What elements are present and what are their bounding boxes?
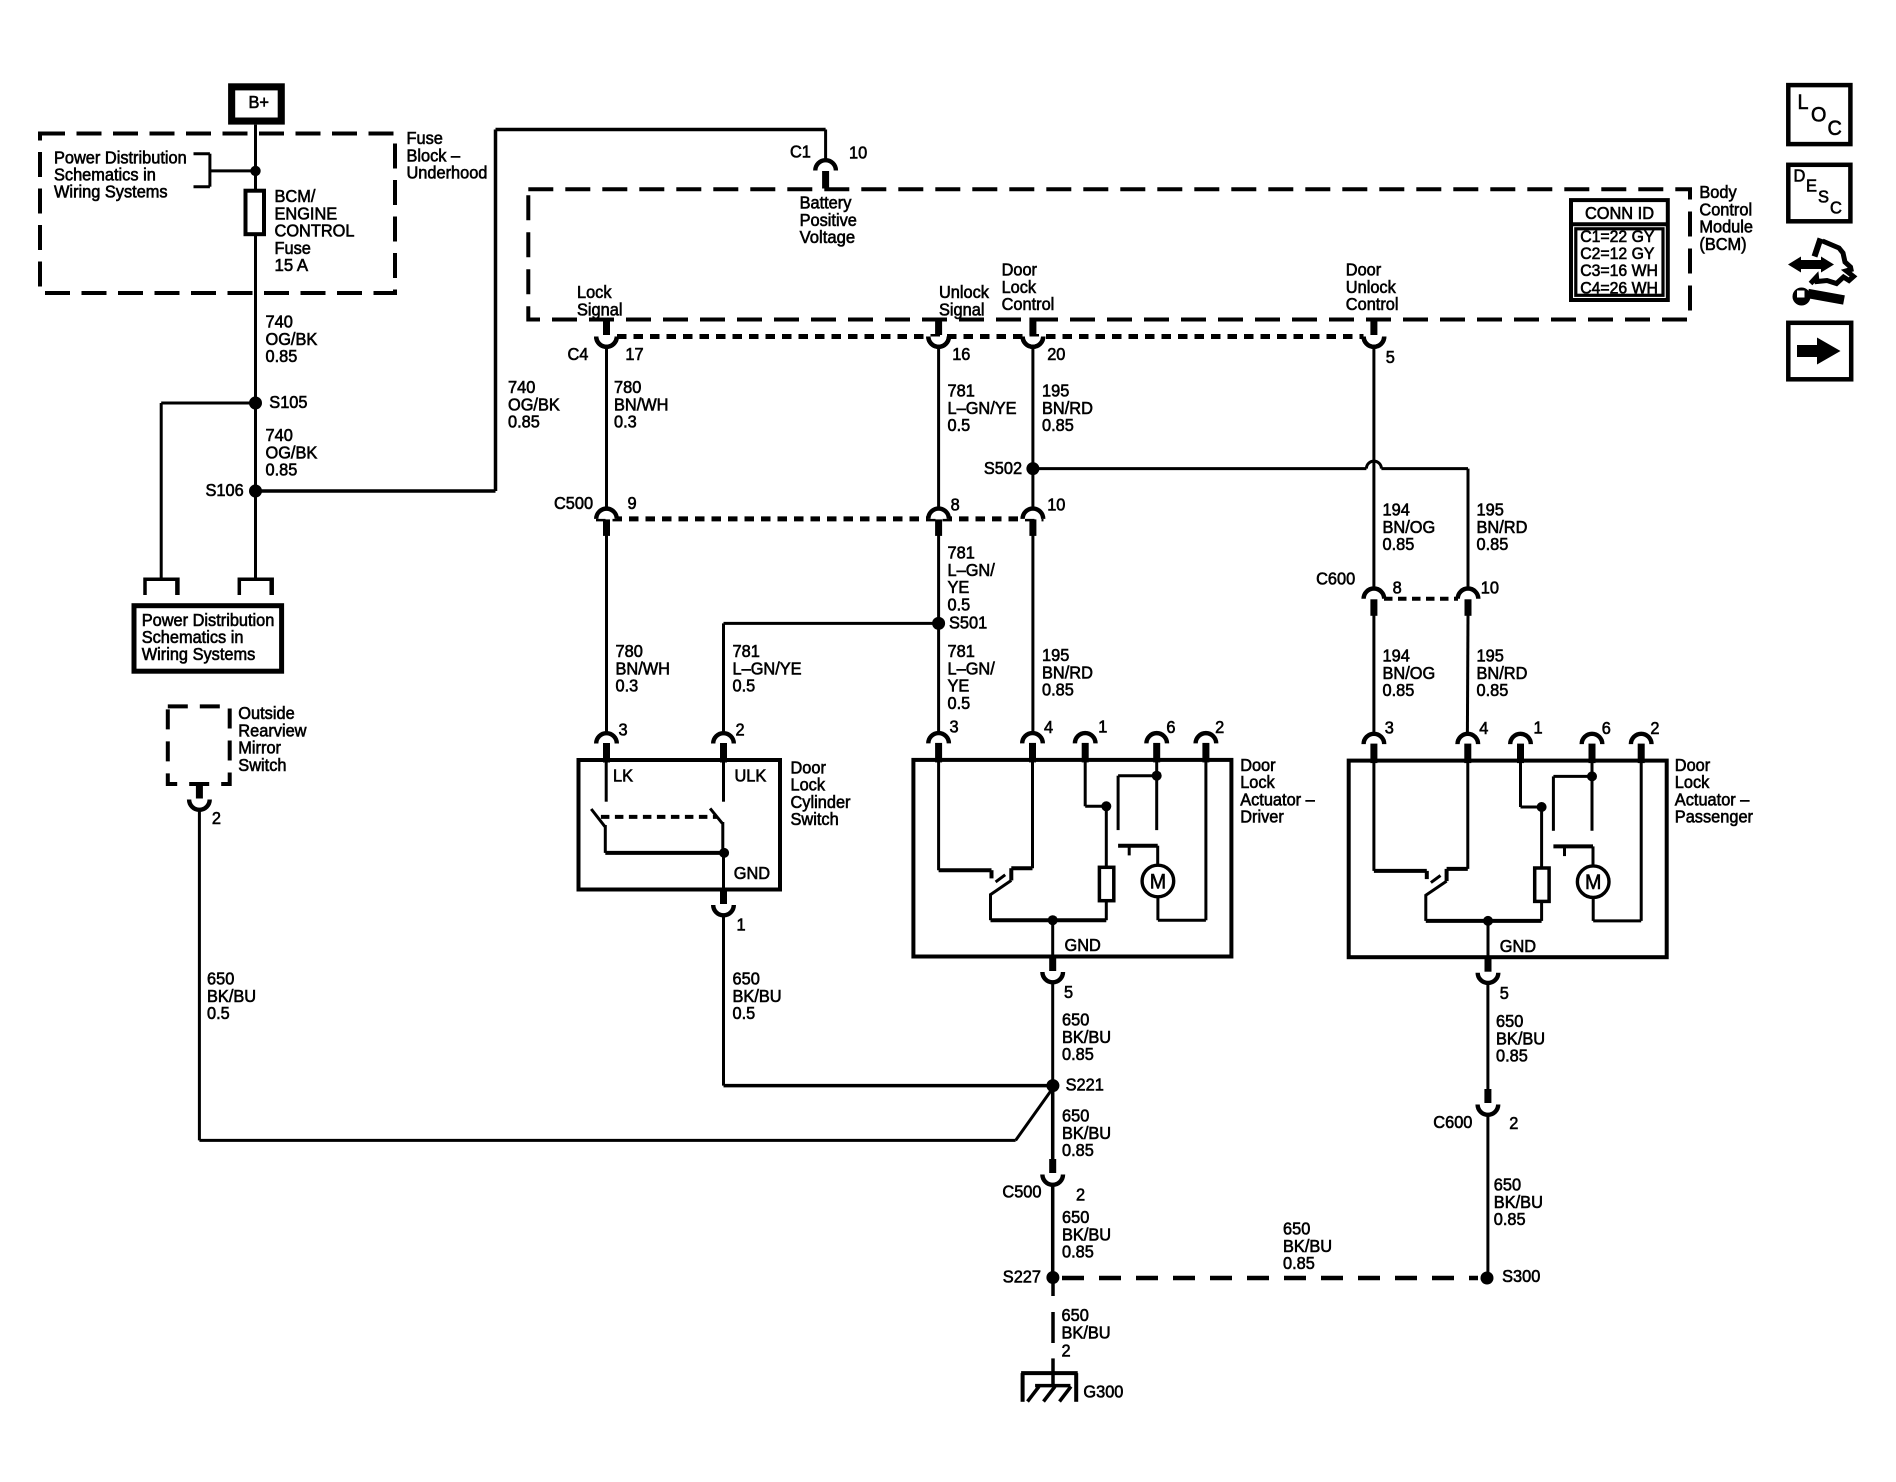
svg-text:(BCM): (BCM) — [1699, 234, 1746, 254]
svg-text:Switch: Switch — [238, 755, 286, 775]
svg-text:Voltage: Voltage — [800, 227, 856, 247]
svg-text:2: 2 — [1076, 1185, 1085, 1205]
svg-text:2: 2 — [736, 720, 745, 740]
svg-text:C: C — [1830, 197, 1842, 217]
svg-text:C600: C600 — [1433, 1112, 1472, 1132]
svg-text:C500: C500 — [554, 493, 593, 513]
svg-text:Driver: Driver — [1240, 807, 1284, 827]
svg-text:O: O — [1811, 103, 1826, 126]
svg-text:0.5: 0.5 — [733, 1003, 756, 1023]
svg-text:Underhood: Underhood — [407, 163, 488, 183]
svg-text:16: 16 — [952, 344, 970, 364]
svg-text:2: 2 — [1215, 717, 1224, 737]
svg-text:0.85: 0.85 — [1062, 1044, 1094, 1064]
svg-text:0.85: 0.85 — [508, 412, 540, 432]
svg-text:S227: S227 — [1003, 1267, 1041, 1287]
svg-text:S502: S502 — [984, 458, 1022, 478]
svg-text:15 A: 15 A — [275, 255, 309, 275]
svg-text:Wiring Systems: Wiring Systems — [142, 644, 256, 664]
svg-text:0.85: 0.85 — [1283, 1253, 1315, 1273]
svg-text:C4=26 WH: C4=26 WH — [1580, 278, 1658, 297]
svg-text:10: 10 — [1047, 495, 1065, 515]
svg-text:3: 3 — [1385, 717, 1394, 737]
svg-text:0.85: 0.85 — [1042, 680, 1074, 700]
svg-text:2: 2 — [1509, 1113, 1518, 1133]
svg-text:GND: GND — [1500, 936, 1536, 956]
svg-text:Signal: Signal — [939, 299, 985, 319]
svg-text:1: 1 — [737, 915, 746, 935]
svg-text:ULK: ULK — [735, 766, 767, 786]
svg-text:0.85: 0.85 — [1477, 534, 1509, 554]
svg-text:C1: C1 — [790, 142, 811, 162]
svg-text:D: D — [1794, 165, 1806, 185]
svg-text:GND: GND — [734, 863, 770, 883]
svg-text:C4: C4 — [568, 344, 589, 364]
svg-text:C500: C500 — [1002, 1182, 1041, 1202]
svg-text:M: M — [1150, 870, 1166, 893]
svg-text:5: 5 — [1064, 982, 1073, 1002]
svg-text:0.5: 0.5 — [948, 693, 971, 713]
svg-text:Passenger: Passenger — [1675, 807, 1753, 827]
svg-text:0.5: 0.5 — [948, 594, 971, 614]
svg-text:6: 6 — [1602, 718, 1611, 738]
svg-text:0.5: 0.5 — [733, 676, 756, 696]
svg-text:BK/BU: BK/BU — [1062, 1322, 1111, 1342]
svg-text:S106: S106 — [206, 480, 244, 500]
svg-text:0.3: 0.3 — [616, 676, 639, 696]
svg-text:2: 2 — [212, 808, 221, 828]
svg-text:C600: C600 — [1316, 569, 1355, 589]
svg-text:GND: GND — [1065, 935, 1101, 955]
svg-text:Signal: Signal — [577, 299, 623, 319]
svg-text:L: L — [1798, 91, 1809, 114]
svg-text:Wiring Systems: Wiring Systems — [54, 181, 168, 201]
svg-text:0.3: 0.3 — [614, 412, 637, 432]
svg-text:0.85: 0.85 — [1383, 534, 1415, 554]
svg-text:1: 1 — [1098, 717, 1107, 737]
svg-text:Control: Control — [1002, 294, 1055, 314]
svg-text:1: 1 — [1534, 717, 1543, 737]
svg-text:0.85: 0.85 — [1383, 680, 1415, 700]
svg-text:0.85: 0.85 — [1477, 680, 1509, 700]
svg-text:10: 10 — [1481, 578, 1499, 598]
svg-text:3: 3 — [950, 717, 959, 737]
svg-text:B+: B+ — [249, 92, 270, 112]
svg-text:CONN ID: CONN ID — [1585, 203, 1654, 223]
svg-text:0.85: 0.85 — [1494, 1209, 1526, 1229]
svg-text:Control: Control — [1346, 294, 1399, 314]
svg-text:2: 2 — [1062, 1341, 1071, 1361]
svg-text:S221: S221 — [1066, 1075, 1104, 1095]
svg-text:0.5: 0.5 — [948, 415, 971, 435]
svg-text:C: C — [1828, 117, 1842, 140]
svg-text:S105: S105 — [269, 392, 307, 412]
svg-text:S300: S300 — [1502, 1266, 1540, 1286]
svg-text:C1=22 GY: C1=22 GY — [1580, 227, 1654, 246]
svg-text:8: 8 — [1393, 578, 1402, 598]
svg-text:0.5: 0.5 — [207, 1003, 230, 1023]
svg-text:S501: S501 — [949, 613, 987, 633]
svg-text:20: 20 — [1047, 344, 1065, 364]
svg-text:4: 4 — [1479, 718, 1488, 738]
svg-text:3: 3 — [619, 720, 628, 740]
svg-text:E: E — [1806, 175, 1817, 195]
svg-text:10: 10 — [849, 143, 867, 163]
svg-text:2: 2 — [1650, 718, 1659, 738]
svg-text:4: 4 — [1044, 717, 1053, 737]
svg-text:0.85: 0.85 — [1062, 1242, 1094, 1262]
svg-text:9: 9 — [628, 493, 637, 513]
svg-text:17: 17 — [625, 344, 643, 364]
svg-text:5: 5 — [1500, 983, 1509, 1003]
svg-text:0.85: 0.85 — [1496, 1046, 1528, 1066]
svg-text:0.85: 0.85 — [266, 460, 298, 480]
svg-text:S: S — [1818, 186, 1829, 206]
svg-text:8: 8 — [951, 495, 960, 515]
svg-text:G300: G300 — [1083, 1382, 1123, 1402]
svg-text:0.85: 0.85 — [266, 346, 298, 366]
svg-text:C2=12 GY: C2=12 GY — [1580, 244, 1654, 263]
svg-text:LK: LK — [613, 766, 633, 786]
svg-text:0.85: 0.85 — [1042, 415, 1074, 435]
svg-text:6: 6 — [1166, 717, 1175, 737]
svg-text:5: 5 — [1386, 347, 1395, 367]
svg-text:C3=16 WH: C3=16 WH — [1580, 261, 1658, 280]
svg-text:M: M — [1585, 871, 1601, 894]
svg-text:0.85: 0.85 — [1062, 1140, 1094, 1160]
svg-text:Switch: Switch — [791, 809, 839, 829]
